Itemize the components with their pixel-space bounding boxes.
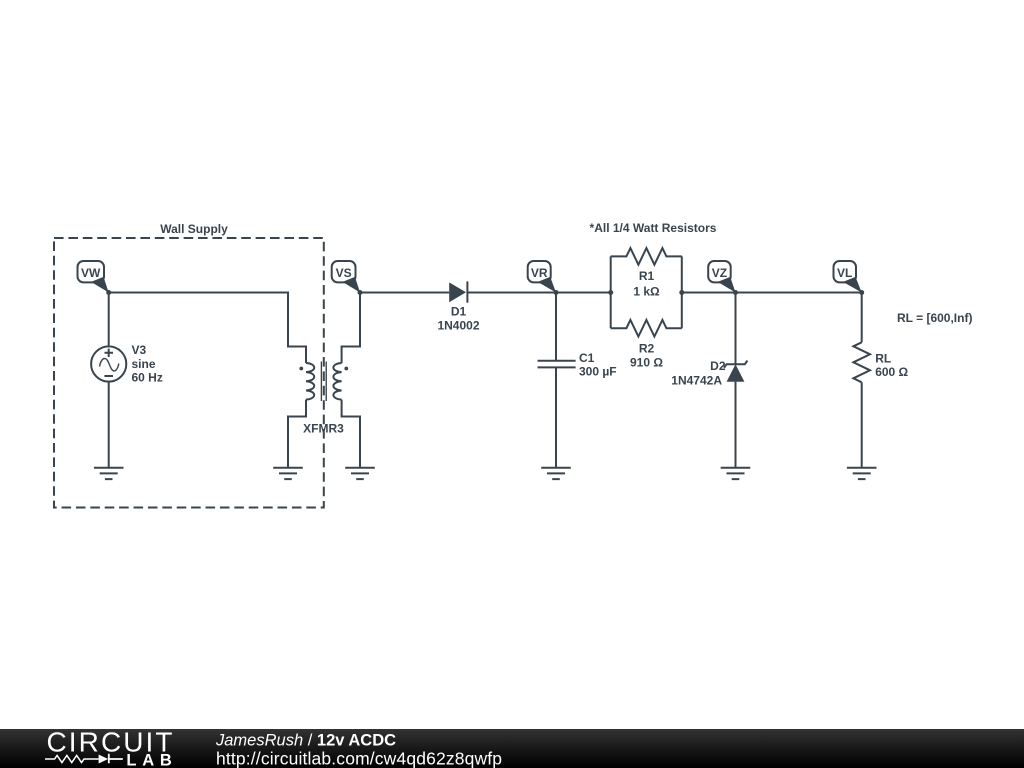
wire R1R2 right node to VZ junction to VL junction [682,292,862,294]
parallel box right rail [681,256,683,328]
V3 value labels [132,343,163,385]
wire D1 cathode to VR junction to R1R2 left node [467,292,610,294]
ground (V3) [94,468,124,479]
resistor R1 [611,248,682,265]
D2 value labels [671,359,726,387]
svg-text:R2: R2 [639,342,655,356]
R2 value labels [630,342,663,370]
D1 value labels [437,305,479,333]
svg-text:1N4002: 1N4002 [437,319,479,333]
svg-text:JamesRush / 12v ACDC: JamesRush / 12v ACDC [215,732,396,750]
primary winding [306,363,314,400]
svg-text:VL: VL [837,266,852,280]
resistor RL [853,342,870,382]
svg-text:D2: D2 [710,359,726,373]
node VS label [332,261,360,293]
svg-text:V3: V3 [132,343,147,357]
svg-text:910 Ω: 910 Ω [630,355,663,369]
footer url [216,749,502,768]
svg-text:XFMR3: XFMR3 [303,422,344,436]
primary dot [299,367,303,371]
resistor R2 [611,320,682,337]
ground (D2) [721,468,751,479]
R1 value labels [633,269,660,299]
parallel box left rail [610,256,612,328]
wire transformer primary bottom to ground [288,400,306,468]
wire transformer secondary bottom to ground [342,400,360,468]
Wall Supply label [160,222,228,236]
ground (secondary) [345,468,375,479]
CircuitLab logo LAB text [126,752,171,768]
svg-text:LAB: LAB [126,752,171,768]
node VL label [834,261,862,293]
svg-text:RL = [600,Inf): RL = [600,Inf) [897,311,972,325]
svg-text:R1: R1 [639,269,655,283]
zener diode D2 [724,361,747,382]
node VZ label [708,261,735,293]
svg-text:VW: VW [81,266,101,280]
svg-text:VS: VS [336,266,352,280]
svg-text:1N4742A: 1N4742A [671,373,722,387]
svg-text:Wall Supply: Wall Supply [160,222,228,236]
svg-text:http://circuitlab.com/cw4qd62z: http://circuitlab.com/cw4qd62z8qwfp [216,749,502,768]
XFMR3 label [303,422,344,436]
diode D1 [449,281,467,302]
svg-text:1 kΩ: 1 kΩ [633,285,660,299]
ground (C1) [541,468,571,479]
junction dot VR [554,290,559,295]
node VW label [78,261,109,293]
voltage source V3 [91,346,126,381]
wire VZ junction down to zener D2 [735,293,737,365]
wire transformer secondary top to VS junction [342,293,360,364]
secondary dot [344,367,348,371]
capacitor C1 [538,361,576,368]
node VR label [528,261,556,293]
svg-text:RL: RL [875,352,891,366]
wire VL junction down to RL [861,293,863,343]
junction dot VL [859,290,864,295]
ground (primary) [273,468,303,479]
Wall Supply enclosure dashed box [54,238,324,508]
junction dot R1R2 left [608,290,613,295]
transformer XFMR3 [299,362,348,402]
wire V3 bottom to ground [108,382,110,468]
wire VW junction down to V3 [108,293,110,347]
footer bar [0,729,1024,768]
wire D2 anode to ground [735,382,737,468]
annotation all quarter watt resistors [590,221,717,235]
svg-text:C1: C1 [579,351,595,365]
svg-text:60 Hz: 60 Hz [132,371,163,385]
wire VS junction to diode D1 anode [360,292,449,294]
junction dot VZ [733,290,738,295]
svg-text:D1: D1 [451,305,467,319]
core lines [321,362,326,402]
junction dot R1R2 right [679,290,684,295]
svg-text:VR: VR [531,266,548,280]
wire VW junction to transformer primary top [109,293,306,364]
CircuitLab logo resistor-diode glyph [45,754,123,764]
RL value labels [875,352,908,380]
wire RL bottom to ground [861,382,863,467]
svg-text:600 Ω: 600 Ω [875,365,908,379]
junction dot VS [358,290,363,295]
svg-text:VZ: VZ [712,266,727,280]
ground (RL) [847,468,877,479]
secondary winding [333,363,341,400]
junction dot VW [106,290,111,295]
wire C1 bottom to ground [555,367,557,467]
wire VR junction down to C1 [555,293,557,361]
C1 value labels [579,351,617,379]
CircuitLab logo CIRCUIT text [47,727,173,758]
footer title JamesRush / 12v ACDC [215,732,396,750]
svg-text:300 µF: 300 µF [579,364,617,378]
svg-text:*All 1/4 Watt Resistors: *All 1/4 Watt Resistors [590,221,717,235]
svg-text:sine: sine [132,357,156,371]
RL range annotation [897,311,972,325]
